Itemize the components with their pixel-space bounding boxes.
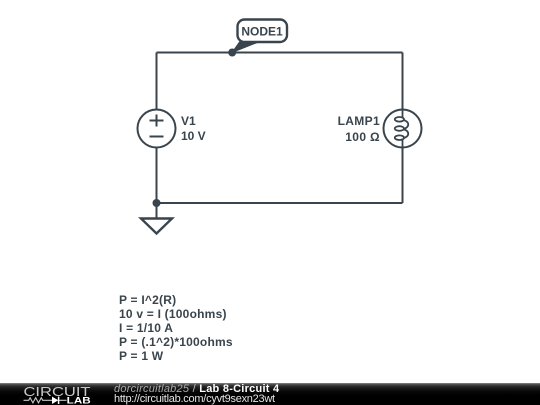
svg-text:100 Ω: 100 Ω <box>345 130 380 144</box>
lamp LAMP1 body circle <box>384 110 422 148</box>
svg-text:V1: V1 <box>181 114 196 128</box>
wire right upper <box>402 53 404 110</box>
node NODE1 <box>228 20 287 57</box>
wire top <box>157 52 403 54</box>
footer text <box>114 384 279 404</box>
svg-text:NODE1: NODE1 <box>241 25 283 39</box>
wire left lower <box>156 148 158 219</box>
wire right lower <box>402 148 404 204</box>
junction dot at ground node <box>153 199 161 207</box>
calculation text <box>119 293 233 364</box>
wire left upper <box>156 53 158 110</box>
voltage source V1 polarity marks (+ / -) <box>150 115 164 137</box>
circuitlab logo <box>0 383 100 405</box>
voltage source V1 <box>138 110 206 148</box>
node NODE1 callout box <box>238 20 288 43</box>
junction dot at NODE1 <box>228 49 236 57</box>
ground symbol <box>141 219 172 234</box>
svg-text:10 V: 10 V <box>181 129 206 143</box>
svg-text:LAB: LAB <box>67 395 92 405</box>
svg-text:LAMP1: LAMP1 <box>338 114 380 128</box>
voltage source V1 body circle <box>138 110 176 148</box>
footer bar <box>0 383 540 405</box>
lamp LAMP1 <box>338 110 422 148</box>
node NODE1 callout tail <box>232 42 258 52</box>
wire bottom <box>157 202 403 204</box>
lamp LAMP1 filament coil <box>395 110 408 148</box>
